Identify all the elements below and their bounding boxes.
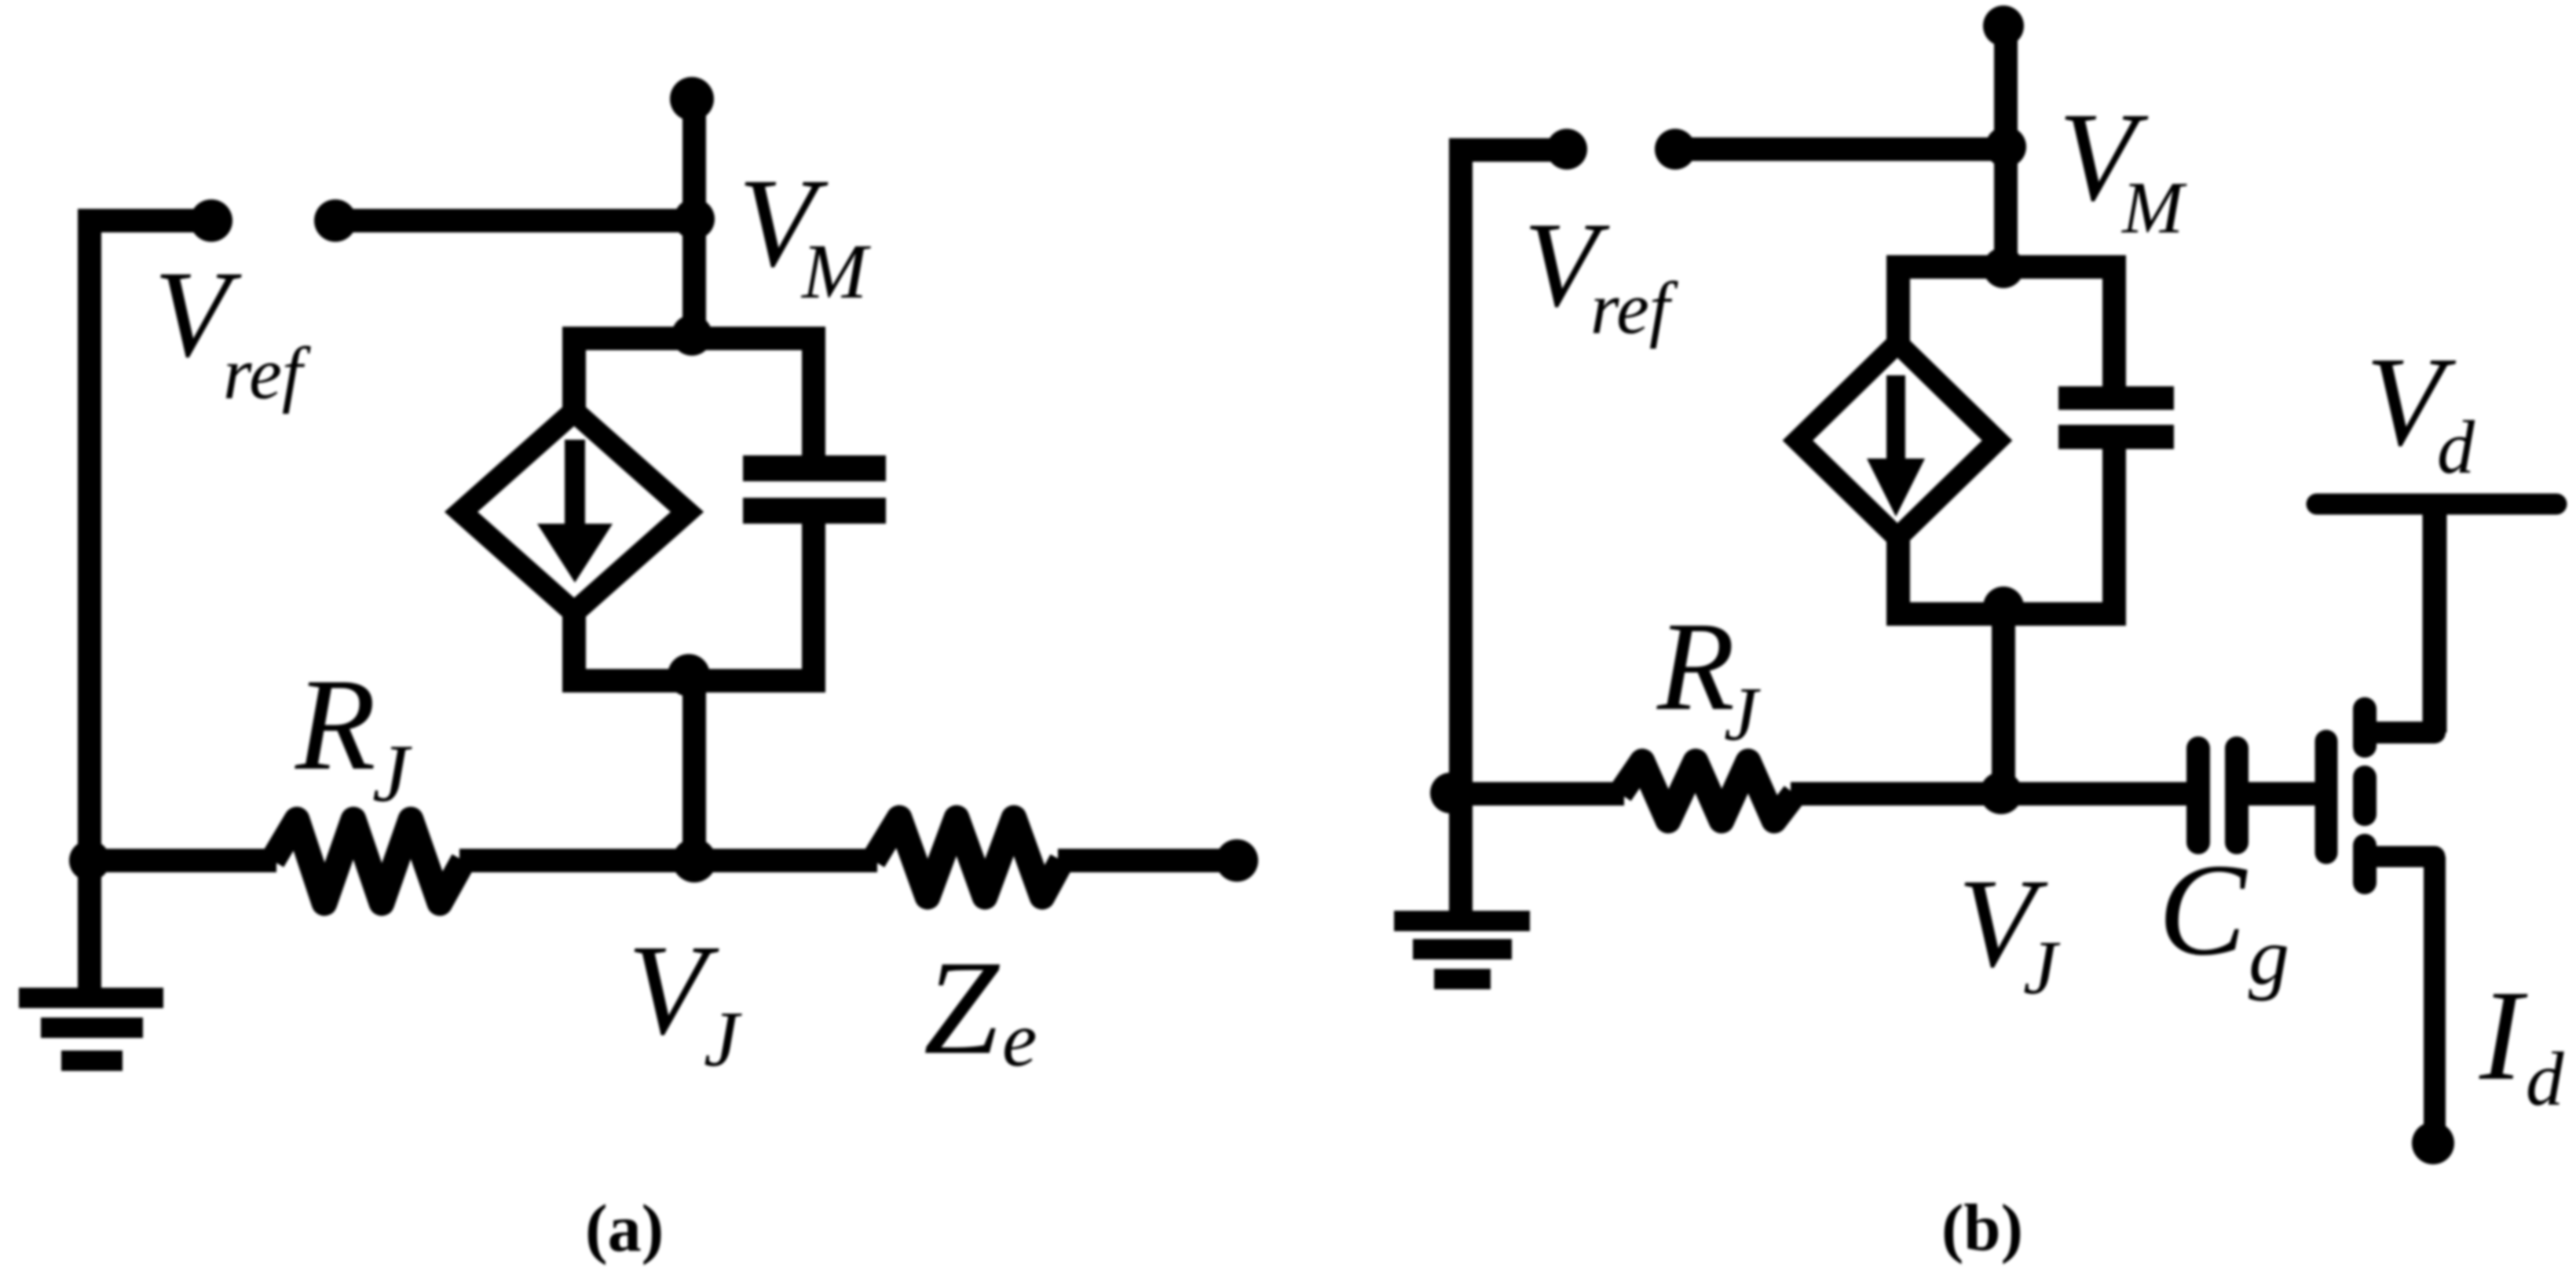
svg-text:(b): (b) xyxy=(1941,1191,2023,1265)
svg-text:C: C xyxy=(2158,837,2248,983)
svg-text:M: M xyxy=(800,228,871,315)
svg-text:J: J xyxy=(2023,926,2061,1010)
svg-text:R: R xyxy=(1656,597,1735,737)
svg-text:R: R xyxy=(295,652,376,798)
svg-text:M: M xyxy=(2120,167,2187,249)
svg-text:d: d xyxy=(2526,1037,2564,1121)
svg-text:(a): (a) xyxy=(585,1190,664,1266)
svg-text:ref: ref xyxy=(223,333,311,415)
svg-text:ref: ref xyxy=(1590,268,1678,349)
svg-text:Z: Z xyxy=(924,934,1001,1083)
svg-text:J: J xyxy=(704,995,742,1083)
svg-text:J: J xyxy=(1724,672,1761,756)
svg-text:d: d xyxy=(2437,405,2475,489)
svg-text:I: I xyxy=(2479,963,2528,1107)
svg-text:e: e xyxy=(1002,996,1037,1083)
svg-text:J: J xyxy=(372,727,412,819)
svg-text:g: g xyxy=(2249,912,2289,1002)
